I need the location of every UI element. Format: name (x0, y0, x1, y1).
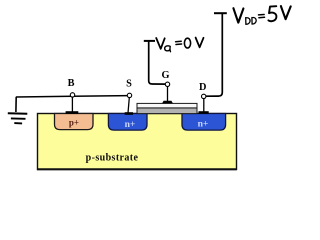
wire S to n+ (128, 97, 129, 114)
n+ drain region (182, 114, 226, 131)
gate oxide (137, 108, 197, 114)
wire ground stem (15, 97, 17, 112)
svg-text:p-substrate: p-substrate (86, 153, 139, 164)
p+ contact (66, 111, 79, 114)
wire VG vertical (149, 41, 166, 84)
VDD supply bar (214, 12, 227, 14)
label VG = 0 V handwritten (156, 38, 203, 52)
wire VDD vertical (206, 13, 222, 96)
gate electrode (137, 103, 197, 108)
node S (127, 93, 131, 97)
svg-text:G: G (161, 70, 169, 81)
wire B to p+ (71, 97, 73, 113)
node B (70, 93, 74, 97)
wire D to n+ (203, 98, 205, 112)
p-substrate (38, 114, 237, 170)
n+ source contact (125, 112, 133, 115)
svg-text:D: D (199, 82, 206, 93)
wire G to gate (167, 85, 169, 102)
p-substrate bottom edge (37, 168, 237, 170)
svg-text:B: B (68, 78, 75, 89)
VG supply bar (144, 40, 155, 42)
n+ drain contact (199, 111, 209, 114)
n+ source region (108, 114, 147, 131)
node D (202, 94, 206, 98)
wire ground to S (16, 96, 130, 97)
svg-text:n+: n+ (198, 119, 209, 130)
svg-text:S: S (126, 79, 132, 90)
svg-text:n+: n+ (125, 119, 136, 130)
gate contact (162, 101, 173, 104)
label VDD = 5 V handwritten (233, 6, 290, 24)
ground (8, 113, 28, 123)
p+ region (55, 114, 94, 130)
svg-text:p+: p+ (69, 118, 79, 128)
node G (165, 82, 169, 86)
